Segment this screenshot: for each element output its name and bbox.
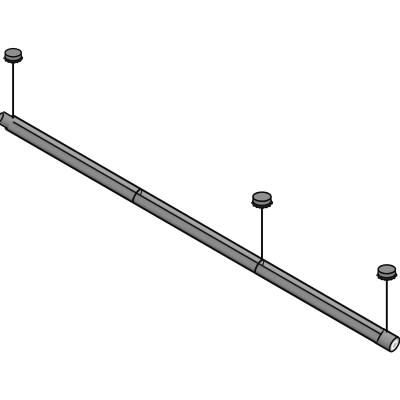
hanger cap 2 (middle) [252,192,272,208]
hanger cap 1 (left) [4,49,22,64]
pipe facet seam line [13,122,382,335]
hanger rod 1 (left) [12,60,14,119]
left end plug cap [0,112,5,124]
hanger rod 2 (middle) [261,205,263,261]
right collar body [377,329,399,351]
joint seam 1 [131,188,141,202]
pipe body [6,116,398,352]
right collar seam [376,329,386,344]
right end face bore rim [389,338,400,351]
right end face bore highlight [390,340,398,350]
left end plug body [0,112,14,129]
right end face outer [387,336,400,354]
hanger cap 3 (right) [377,265,396,281]
pipe assembly (rotated 30 deg) [0,109,400,353]
pipe top outline [14,116,399,338]
hanger rod 3 (right) [386,277,388,333]
right end face bore center shade [392,342,397,348]
joint seam 2 [253,259,263,273]
pipe bottom outline [6,129,391,351]
left pipe end cap ellipse [4,114,16,130]
